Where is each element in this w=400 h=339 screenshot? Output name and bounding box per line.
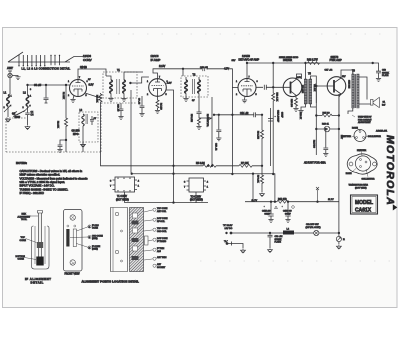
padder capacitor C2 bbox=[12, 111, 25, 117]
svg-text:CORE: CORE bbox=[18, 259, 25, 261]
electrolytic C15C bbox=[285, 202, 290, 219]
svg-text:ON-OFF SW: ON-OFF SW bbox=[306, 224, 319, 226]
svg-text:CA61X: CA61X bbox=[355, 208, 372, 214]
slug arrow L2 bbox=[24, 105, 31, 112]
choke L4 bbox=[283, 231, 294, 235]
oscillator feed wire bbox=[85, 93, 101, 98]
svg-text:ANT COIL: ANT COIL bbox=[157, 210, 167, 213]
coil L3 oscillator bbox=[82, 114, 84, 126]
antenna symbol bbox=[8, 73, 12, 77]
wire V2 screen to bus bbox=[166, 90, 173, 203]
svg-text:R6 500K VOL: R6 500K VOL bbox=[206, 114, 208, 128]
volume control R6 bbox=[199, 97, 212, 166]
svg-text:ANT: ANT bbox=[7, 66, 13, 70]
svg-text:COLLECTOR: COLLECTOR bbox=[362, 178, 375, 180]
svg-text:R10 4.7K: R10 4.7K bbox=[276, 93, 278, 102]
svg-text:CORE: CORE bbox=[20, 240, 27, 242]
Q2 collector to T6 bbox=[341, 70, 353, 78]
Q1 collector to T5 bbox=[297, 74, 302, 79]
capacitor C16 spark plate bbox=[268, 233, 273, 248]
svg-text:(ON VOL CONT): (ON VOL CONT) bbox=[306, 227, 321, 229]
svg-text:11V: 11V bbox=[342, 76, 346, 78]
svg-text:R5 3.3M: R5 3.3M bbox=[196, 163, 205, 165]
location labels right bbox=[144, 208, 168, 269]
svg-text:1: 1 bbox=[68, 81, 69, 83]
T2 primary winding bbox=[185, 80, 188, 93]
capacitor C3 bbox=[45, 84, 47, 86]
svg-text:TOP: TOP bbox=[21, 237, 26, 239]
svg-text:C10 .05: C10 .05 bbox=[117, 104, 119, 112]
tube V3 12AE6 bbox=[238, 79, 256, 97]
coil L2 bbox=[26, 95, 29, 106]
svg-text:R1 22K: R1 22K bbox=[62, 92, 64, 100]
transistor Q1 audio driver bbox=[283, 78, 302, 97]
resistor R8 bbox=[261, 115, 264, 166]
svg-text:11.7V: 11.7V bbox=[328, 199, 334, 201]
svg-text:BASE: BASE bbox=[346, 172, 352, 175]
T1 secondary winding bbox=[123, 80, 126, 93]
T2 secondary winding bbox=[198, 80, 201, 93]
svg-text:C11A 100MF: C11A 100MF bbox=[277, 110, 280, 123]
svg-text:C15C 30: C15C 30 bbox=[283, 211, 292, 213]
svg-text:R12 1K: R12 1K bbox=[299, 112, 301, 120]
svg-text:ADJUST FOR 4MA: ADJUST FOR 4MA bbox=[304, 162, 326, 165]
svg-text:SPARK: SPARK bbox=[382, 71, 390, 74]
svg-text:4.7V: 4.7V bbox=[224, 68, 229, 71]
capacitor C13 bbox=[216, 115, 221, 138]
svg-text:BOTTOM: BOTTOM bbox=[16, 256, 25, 258]
electrolytic C15A bbox=[268, 202, 273, 219]
AVC bus 1 bbox=[101, 151, 263, 166]
svg-text:R2 10K: R2 10K bbox=[57, 121, 59, 129]
svg-text:SOCKET: SOCKET bbox=[157, 267, 166, 269]
svg-text:30MF: 30MF bbox=[285, 214, 291, 216]
svg-text:YEL BLK: YEL BLK bbox=[313, 84, 315, 92]
pin digits V1 bbox=[68, 77, 88, 97]
bias resistor R15 10 bbox=[316, 114, 339, 117]
ground at antenna bbox=[12, 76, 18, 77]
T2 core bbox=[192, 79, 194, 94]
svg-text:ALIGNMENT: ALIGNMENT bbox=[18, 215, 31, 218]
dashed tuning gang box bbox=[6, 103, 101, 152]
coupling capacitor C15 to Q1 bbox=[256, 85, 283, 90]
tube V2 12AC6 IF amplifier bbox=[149, 79, 167, 97]
svg-text:12AE6: 12AE6 bbox=[242, 54, 250, 58]
svg-text:PLATE: PLATE bbox=[382, 74, 389, 77]
slug arrow L1 bbox=[4, 105, 11, 112]
svg-text:SPARK: SPARK bbox=[275, 238, 283, 241]
svg-text:PWR AMP: PWR AMP bbox=[330, 58, 343, 62]
misc small labels bbox=[31, 76, 347, 129]
pin digits V3 bbox=[236, 77, 258, 97]
svg-text:1: 1 bbox=[147, 81, 148, 83]
svg-text:(BOT VIEW): (BOT VIEW) bbox=[116, 199, 129, 201]
A minus terminal bbox=[228, 244, 243, 249]
heater line bbox=[125, 192, 209, 203]
R14 bias lower bbox=[315, 129, 317, 155]
battery line down bbox=[338, 94, 340, 200]
wire V3 plate to top bus bbox=[246, 63, 248, 79]
svg-text:R8 1.5M: R8 1.5M bbox=[257, 131, 259, 139]
svg-text:EMITTER: EMITTER bbox=[342, 136, 352, 138]
front view labels bbox=[88, 225, 91, 228]
IF transformer T1 dashed box bbox=[103, 72, 137, 98]
svg-text:R15 10: R15 10 bbox=[323, 113, 331, 115]
svg-text:FRONT VIEW: FRONT VIEW bbox=[65, 272, 81, 275]
svg-text:TRANSISTOR STAR: TRANSISTOR STAR bbox=[349, 183, 369, 186]
resistor R4 cathode bbox=[156, 96, 159, 110]
svg-text:6: 6 bbox=[87, 81, 88, 83]
B+ bus 2 bbox=[131, 90, 275, 202]
IF alignment tool drawing bbox=[39, 213, 42, 258]
power transistor bottom view bbox=[347, 154, 377, 174]
wire grid line y85 bbox=[28, 85, 70, 95]
svg-text:2: 2 bbox=[4, 107, 5, 109]
coil L1 bbox=[7, 95, 10, 106]
Q2 emitter down bbox=[339, 94, 341, 116]
transistor Q2 power output bbox=[327, 77, 346, 96]
bottom core black bbox=[36, 257, 43, 266]
svg-text:R13 100: R13 100 bbox=[290, 99, 292, 108]
svg-text:85V: 85V bbox=[232, 60, 236, 62]
svg-text:12.5V: 12.5V bbox=[159, 65, 166, 68]
svg-text:MOTOROLA: MOTOROLA bbox=[384, 135, 396, 206]
svg-text:DRIVER: DRIVER bbox=[283, 59, 292, 62]
IF transformer T2 dashed box bbox=[181, 76, 208, 97]
svg-text:2: 2 bbox=[236, 94, 237, 96]
svg-text:"A-": "A-" bbox=[224, 240, 228, 243]
base bias vertical bbox=[272, 63, 275, 174]
svg-text:R3 47K: R3 47K bbox=[96, 95, 98, 103]
svg-text:6: 6 bbox=[257, 81, 258, 83]
svg-text:(BOT VIEW): (BOT VIEW) bbox=[355, 187, 367, 189]
svg-text:ANT TRIM: ANT TRIM bbox=[157, 256, 167, 259]
svg-text:2000: 2000 bbox=[15, 116, 21, 119]
svg-text:R14 560: R14 560 bbox=[312, 140, 314, 149]
faint scan dot rows bbox=[60, 34, 396, 261]
V3 cathode ground bbox=[244, 96, 247, 100]
svg-text:C3 .05: C3 .05 bbox=[34, 84, 42, 87]
svg-text:COLLECTOR: COLLECTOR bbox=[368, 136, 381, 138]
pilot lamp bbox=[336, 236, 341, 241]
page turn arrow bbox=[393, 204, 398, 210]
svg-text:R16 11: R16 11 bbox=[322, 124, 330, 126]
svg-text:AJD15A 471: AJD15A 471 bbox=[376, 130, 388, 133]
svg-text:IF AMP: IF AMP bbox=[151, 58, 161, 62]
svg-text:ALIGNMENT POINTS LOCATION DETA: ALIGNMENT POINTS LOCATION DETAIL bbox=[82, 279, 140, 283]
svg-text:L1, L2 & L3 CONNECTION DETAIL: L1, L2 & L3 CONNECTION DETAIL bbox=[22, 66, 71, 70]
svg-text:1: 1 bbox=[236, 81, 237, 83]
svg-text:5: 5 bbox=[166, 94, 167, 96]
svg-text:IF TRANS: IF TRANS bbox=[157, 240, 167, 243]
tube socket box T2 bottom view bbox=[189, 178, 204, 192]
electrolytic C11A bbox=[270, 108, 272, 166]
svg-text:3: 3 bbox=[30, 89, 31, 91]
svg-text:C17 .02: C17 .02 bbox=[325, 70, 333, 72]
capacitor C6 on AGC bbox=[58, 140, 66, 149]
svg-text:CONV: CONV bbox=[83, 58, 92, 62]
svg-text:1: 1 bbox=[30, 96, 31, 98]
resistor R7 10K in bus bbox=[239, 164, 252, 167]
resistor R15 2.7W in bus bbox=[308, 62, 320, 65]
T1 core bbox=[117, 79, 119, 94]
coil form outline bbox=[32, 226, 50, 269]
svg-text:IF FREQ - 262.5KC: IF FREQ - 262.5KC bbox=[20, 191, 44, 195]
svg-text:C16 .1M: C16 .1M bbox=[275, 236, 283, 238]
svg-text:2: 2 bbox=[147, 94, 148, 96]
Q2 base wire bbox=[316, 85, 327, 87]
tube V1 12AD6 converter bbox=[70, 80, 87, 97]
svg-text:"A" 13.8V: "A" 13.8V bbox=[223, 224, 233, 227]
svg-text:OSC COIL: OSC COIL bbox=[157, 231, 167, 233]
A+ supply line bbox=[231, 233, 339, 236]
svg-text:C13 .02: C13 .02 bbox=[215, 143, 217, 151]
note near speaker bbox=[358, 117, 372, 125]
capacitor C? at bias bbox=[323, 129, 328, 153]
svg-text:14V DC: 14V DC bbox=[225, 228, 233, 230]
svg-text:2: 2 bbox=[23, 107, 24, 109]
svg-text:NOTES:: NOTES: bbox=[16, 161, 27, 165]
capacitor C18 spark plate bbox=[373, 63, 381, 78]
svg-text:30WF: 30WF bbox=[281, 112, 283, 118]
svg-text:7: 7 bbox=[79, 77, 80, 79]
svg-text:C9 .05: C9 .05 bbox=[138, 98, 140, 105]
wire V1 plate to T1 bbox=[78, 69, 106, 80]
svg-text:HEX: HEX bbox=[22, 214, 27, 216]
svg-text:1: 1 bbox=[11, 96, 12, 98]
svg-text:TOOL: TOOL bbox=[21, 219, 28, 221]
svg-text:RF COIL: RF COIL bbox=[157, 221, 166, 223]
svg-text:C14 .02: C14 .02 bbox=[240, 112, 249, 115]
svg-text:PLATE: PLATE bbox=[275, 241, 282, 244]
svg-text:-1.2V: -1.2V bbox=[167, 83, 173, 85]
wire antenna to L1 bbox=[8, 78, 10, 95]
capacitor C12 in line bbox=[203, 67, 205, 72]
svg-text:5: 5 bbox=[86, 95, 87, 97]
ground below oscillator box bbox=[82, 142, 84, 143]
svg-text:ADJ: ADJ bbox=[157, 250, 161, 253]
thermistor R16 bbox=[316, 128, 339, 130]
tube socket box T1 bottom view bbox=[115, 177, 135, 192]
svg-text:DETAIL: DETAIL bbox=[31, 281, 44, 285]
capacitor C9 bbox=[140, 96, 145, 113]
chassis arrow below C4 bbox=[25, 126, 30, 130]
svg-text:GRN BRN: GRN BRN bbox=[348, 80, 350, 89]
svg-text:T1 CONV: T1 CONV bbox=[117, 196, 127, 198]
capacitor C10 bbox=[119, 103, 124, 116]
resistor R9 to ground bbox=[261, 165, 263, 167]
svg-text:(BOT VIEW): (BOT VIEW) bbox=[190, 200, 203, 202]
resistor R1 AGC branch bbox=[65, 84, 67, 86]
speaker SP1 bbox=[359, 77, 371, 104]
front view panel bbox=[64, 210, 83, 272]
resistor R3 bbox=[99, 93, 102, 151]
svg-text:30MF: 30MF bbox=[265, 214, 271, 216]
svg-text:DET-AVC-AF AMP: DET-AVC-AF AMP bbox=[239, 59, 260, 62]
svg-text:MODEL: MODEL bbox=[355, 200, 373, 206]
dashed AVC line under T1 bbox=[101, 102, 137, 104]
chassis outline location detail bbox=[111, 208, 128, 272]
svg-text:R18 2.7W: R18 2.7W bbox=[307, 58, 318, 61]
top bus B+ bbox=[247, 62, 373, 64]
dial strip hatched bbox=[130, 208, 144, 272]
B+ distribution line bbox=[245, 174, 339, 202]
svg-text:ADJUSTMENT: ADJUSTMENT bbox=[358, 121, 372, 124]
svg-text:CORE: CORE bbox=[92, 228, 98, 230]
T2 stubs bbox=[183, 69, 199, 98]
svg-text:USED WITH 6V: USED WITH 6V bbox=[358, 117, 372, 119]
on-off switch bbox=[314, 230, 319, 235]
wire T1 secondary to V2 grid bbox=[130, 77, 149, 83]
capacitor C7 in osc box bbox=[90, 116, 94, 125]
coupling line C14 bbox=[214, 112, 262, 117]
svg-text:C12 .05: C12 .05 bbox=[200, 67, 208, 69]
detector load wire bbox=[198, 98, 200, 112]
wire osc to dashed bottom bbox=[82, 126, 84, 152]
svg-text:NPO: NPO bbox=[73, 133, 78, 136]
T1 primary winding bbox=[110, 80, 113, 93]
svg-text:-8.5V: -8.5V bbox=[296, 77, 302, 79]
pin digits V2 bbox=[147, 77, 168, 97]
detector components bbox=[197, 112, 202, 126]
svg-text:(RED): (RED) bbox=[92, 238, 98, 240]
svg-text:R7 10K: R7 10K bbox=[241, 163, 249, 165]
svg-text:2: 2 bbox=[68, 95, 69, 97]
small transistor bottom view bbox=[354, 130, 366, 142]
svg-text:C15A 30: C15A 30 bbox=[262, 210, 271, 213]
wire V2 grid top line bbox=[153, 69, 208, 79]
coil detail winding ticks bbox=[19, 55, 60, 66]
svg-text:6.3V: 6.3V bbox=[89, 84, 94, 87]
resistor R11 270 in line bbox=[277, 200, 288, 203]
wire V3 grid node bbox=[232, 173, 234, 175]
svg-text:FOR CONTACT: FOR CONTACT bbox=[358, 118, 372, 121]
svg-text:L7 7B: L7 7B bbox=[81, 67, 87, 69]
svg-text:R4 120: R4 120 bbox=[160, 103, 162, 111]
capacitor C4 bbox=[25, 106, 29, 125]
T1 winding stubs bbox=[106, 72, 143, 98]
svg-text:R9 3.9K: R9 3.9K bbox=[257, 175, 259, 183]
svg-text:EMITTER: EMITTER bbox=[357, 150, 367, 152]
test point x bbox=[316, 187, 319, 202]
coil detail L1 L2 L3 line bbox=[8, 52, 83, 62]
svg-text:R5 1.5M: R5 1.5M bbox=[190, 114, 192, 122]
resistor R5 3.3M in bus bbox=[203, 164, 216, 167]
svg-text:7: 7 bbox=[159, 77, 160, 79]
MODEL CA61X box bbox=[351, 195, 378, 214]
svg-text:BLU GRN: BLU GRN bbox=[301, 85, 303, 94]
dashed oscillator coil box bbox=[79, 112, 98, 142]
svg-text:R11 270: R11 270 bbox=[278, 199, 287, 201]
Q1 emitter resistor R13 bbox=[295, 95, 298, 108]
svg-text:11.7V: 11.7V bbox=[252, 200, 258, 202]
svg-text:5: 5 bbox=[256, 94, 257, 96]
svg-text:(GRN): (GRN) bbox=[92, 249, 98, 251]
svg-text:7: 7 bbox=[249, 77, 250, 79]
